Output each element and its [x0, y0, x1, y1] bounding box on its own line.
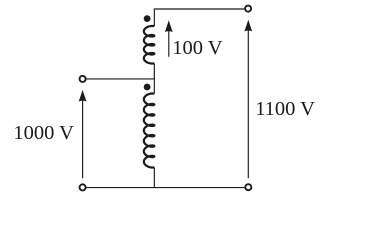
inductor L2 (bottom winding) — [144, 94, 155, 168]
arrow 1000V head — [79, 90, 87, 102]
arrow 1100V shaft — [247, 28, 249, 178]
arrow 1100V head — [244, 20, 252, 32]
wire top horizontal — [154, 8, 244, 10]
terminal bottom-right — [245, 184, 251, 190]
terminal bottom-left — [80, 184, 86, 190]
polarity dot (bottom winding) — [144, 84, 151, 91]
wire vertical top segment — [153, 8, 155, 26]
wire vertical bottom segment — [153, 168, 155, 188]
inductor L1 (top winding) — [144, 26, 154, 64]
terminal upper-left — [80, 76, 86, 82]
arrow 100V head — [165, 20, 173, 32]
svg-text:100 V: 100 V — [172, 37, 223, 59]
arrow 100V shaft — [168, 28, 170, 57]
wire vertical middle segment — [153, 64, 155, 94]
arrow 1000V shaft — [82, 98, 84, 178]
svg-text:1000 V: 1000 V — [13, 122, 74, 144]
wire bottom horizontal — [86, 187, 244, 189]
wire left horizontal — [86, 78, 154, 80]
terminal top-right — [245, 6, 251, 12]
svg-text:1100 V: 1100 V — [255, 98, 315, 120]
polarity dot (top winding) — [144, 15, 151, 22]
